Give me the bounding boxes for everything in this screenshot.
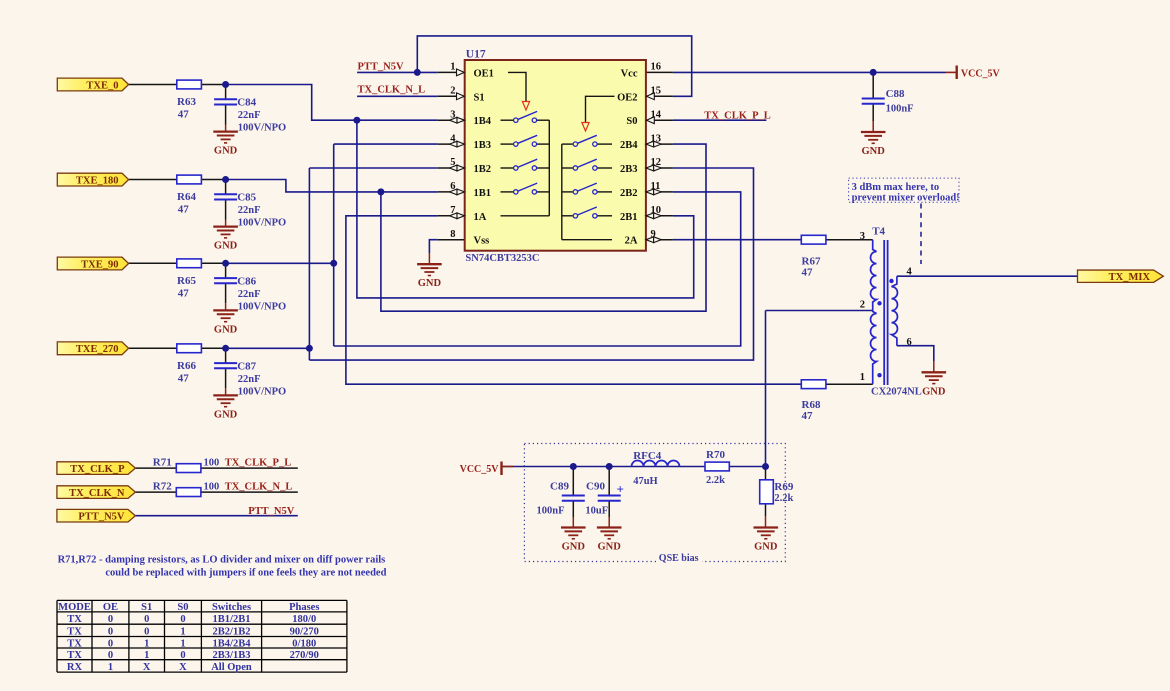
svg-text:C90: C90 (586, 481, 605, 493)
svg-text:GND: GND (418, 278, 442, 289)
svg-text:GND: GND (862, 146, 886, 157)
svg-text:1A: 1A (474, 212, 487, 223)
svg-text:PTT_N5V: PTT_N5V (78, 512, 125, 523)
svg-text:GND: GND (754, 542, 778, 553)
svg-text:R64: R64 (177, 191, 196, 203)
svg-text:2B1: 2B1 (620, 212, 638, 223)
svg-text:22nF: 22nF (238, 289, 261, 300)
svg-text:2B4: 2B4 (620, 140, 638, 151)
svg-text:16: 16 (651, 62, 662, 73)
svg-text:90/270: 90/270 (290, 626, 319, 637)
svg-text:1: 1 (450, 62, 455, 73)
svg-text:1B1: 1B1 (474, 188, 492, 199)
svg-text:TX_CLK_N_L: TX_CLK_N_L (358, 85, 426, 96)
svg-text:0: 0 (108, 638, 113, 649)
svg-text:VCC_5V: VCC_5V (460, 464, 500, 475)
svg-text:RX: RX (67, 662, 83, 673)
svg-text:TXE_90: TXE_90 (81, 259, 118, 270)
svg-text:VCC_5V: VCC_5V (961, 69, 1001, 80)
svg-text:0/180: 0/180 (292, 638, 316, 649)
svg-text:1B1/2B1: 1B1/2B1 (213, 614, 251, 625)
svg-text:100V/NPO: 100V/NPO (238, 301, 286, 312)
svg-text:C84: C84 (237, 97, 256, 109)
svg-text:22nF: 22nF (238, 110, 261, 121)
svg-text:GND: GND (214, 409, 238, 420)
svg-text:180/0: 180/0 (292, 614, 316, 625)
svg-text:47: 47 (178, 372, 190, 384)
svg-text:R72: R72 (153, 481, 172, 493)
svg-text:GND: GND (214, 324, 238, 335)
svg-text:100: 100 (204, 457, 220, 468)
svg-text:8: 8 (450, 229, 455, 240)
svg-text:TX: TX (67, 650, 82, 661)
svg-text:2A: 2A (625, 236, 638, 247)
svg-text:47: 47 (178, 287, 190, 299)
svg-text:C88: C88 (886, 88, 905, 100)
svg-text:2: 2 (860, 300, 865, 311)
svg-text:10uF: 10uF (585, 505, 608, 516)
svg-text:R71,R72 - damping resistors, a: R71,R72 - damping resistors, as LO divid… (58, 555, 386, 566)
svg-text:1: 1 (180, 626, 185, 637)
svg-text:OE1: OE1 (474, 68, 494, 79)
svg-text:R70: R70 (706, 449, 725, 461)
svg-text:TX: TX (67, 626, 82, 637)
svg-text:2.2k: 2.2k (706, 475, 725, 486)
svg-text:3 dBm max here, to: 3 dBm max here, to (852, 182, 940, 193)
svg-text:TX: TX (67, 638, 82, 649)
svg-text:22nF: 22nF (238, 205, 261, 216)
svg-text:PTT_N5V: PTT_N5V (358, 61, 405, 72)
svg-text:2.2k: 2.2k (774, 493, 793, 504)
svg-text:S1: S1 (474, 92, 485, 103)
svg-text:47: 47 (178, 109, 190, 121)
svg-text:3: 3 (860, 231, 865, 242)
svg-text:1: 1 (180, 638, 185, 649)
svg-text:MODE: MODE (58, 602, 91, 613)
svg-text:TXE_180: TXE_180 (76, 175, 119, 186)
svg-text:0: 0 (180, 650, 185, 661)
svg-text:2B3: 2B3 (620, 164, 638, 175)
svg-text:GND: GND (214, 146, 238, 157)
svg-text:TXE_0: TXE_0 (86, 80, 118, 91)
svg-text:TX_MIX: TX_MIX (1109, 272, 1151, 283)
svg-text:22nF: 22nF (238, 374, 261, 385)
svg-text:S0: S0 (626, 116, 637, 127)
svg-text:could be replaced with jumpers: could be replaced with jumpers if one fe… (105, 568, 386, 579)
svg-text:1: 1 (108, 662, 113, 673)
svg-text:GND: GND (598, 542, 622, 553)
svg-text:Vcc: Vcc (621, 68, 638, 79)
svg-text:OE2: OE2 (617, 92, 637, 103)
svg-text:TX_CLK_P_L: TX_CLK_P_L (704, 111, 771, 122)
svg-text:Vss: Vss (474, 236, 490, 247)
svg-text:OE: OE (103, 602, 118, 613)
svg-text:TX: TX (67, 614, 82, 625)
svg-text:0: 0 (108, 614, 113, 625)
svg-text:TX_CLK_P: TX_CLK_P (70, 464, 125, 475)
svg-text:X: X (143, 662, 151, 673)
svg-text:47: 47 (802, 267, 814, 279)
svg-text:R71: R71 (153, 456, 172, 468)
svg-text:4: 4 (907, 267, 913, 278)
svg-text:TX_CLK_N_L: TX_CLK_N_L (225, 482, 293, 493)
svg-text:270/90: 270/90 (290, 650, 319, 661)
svg-text:1: 1 (860, 372, 865, 383)
svg-text:100nF: 100nF (886, 104, 914, 115)
svg-text:0: 0 (108, 626, 113, 637)
svg-text:C87: C87 (237, 360, 256, 372)
svg-text:TX_CLK_N: TX_CLK_N (69, 488, 125, 499)
svg-text:GND: GND (562, 542, 586, 553)
svg-text:U17: U17 (466, 49, 486, 61)
svg-text:T4: T4 (872, 226, 885, 238)
svg-text:0: 0 (180, 614, 185, 625)
svg-text:+: + (617, 482, 624, 497)
svg-text:1: 1 (144, 638, 149, 649)
svg-text:100: 100 (204, 482, 220, 493)
svg-text:C85: C85 (237, 192, 256, 204)
svg-text:RFC4: RFC4 (633, 450, 662, 462)
svg-text:1: 1 (144, 650, 149, 661)
svg-text:1B2: 1B2 (474, 164, 492, 175)
svg-text:2B2: 2B2 (620, 188, 638, 199)
svg-text:1B4: 1B4 (474, 116, 492, 127)
svg-text:R63: R63 (177, 96, 196, 108)
svg-text:All Open: All Open (211, 662, 252, 673)
svg-text:100V/NPO: 100V/NPO (238, 386, 286, 397)
svg-text:2B2/1B2: 2B2/1B2 (213, 626, 251, 637)
svg-text:C86: C86 (237, 275, 256, 287)
svg-text:QSE bias: QSE bias (659, 553, 699, 564)
svg-text:GND: GND (922, 386, 946, 397)
svg-text:R65: R65 (177, 275, 196, 287)
svg-text:2: 2 (450, 86, 455, 97)
svg-text:47: 47 (802, 410, 814, 422)
svg-text:6: 6 (907, 337, 912, 348)
svg-text:X: X (179, 662, 187, 673)
svg-text:GND: GND (214, 241, 238, 252)
svg-text:R66: R66 (177, 360, 196, 372)
svg-text:Switches: Switches (212, 602, 251, 613)
svg-text:CX2074NL: CX2074NL (871, 387, 922, 398)
svg-text:TXE_270: TXE_270 (76, 344, 119, 355)
svg-text:S1: S1 (141, 602, 152, 613)
svg-text:1B3: 1B3 (474, 140, 492, 151)
svg-text:100V/NPO: 100V/NPO (238, 123, 286, 134)
svg-text:SN74CBT3253C: SN74CBT3253C (465, 253, 539, 264)
svg-text:2B3/1B3: 2B3/1B3 (213, 650, 251, 661)
svg-text:0: 0 (108, 650, 113, 661)
svg-text:S0: S0 (177, 602, 188, 613)
svg-text:R69: R69 (774, 481, 793, 493)
svg-text:47: 47 (178, 204, 190, 216)
svg-text:0: 0 (144, 626, 149, 637)
svg-text:TX_CLK_P_L: TX_CLK_P_L (225, 457, 292, 468)
svg-text:0: 0 (144, 614, 149, 625)
svg-text:1B4/2B4: 1B4/2B4 (213, 638, 252, 649)
svg-text:47uH: 47uH (633, 476, 658, 487)
svg-text:prevent mixer overload!: prevent mixer overload! (852, 193, 960, 204)
svg-text:100nF: 100nF (537, 505, 565, 516)
svg-text:C89: C89 (550, 481, 569, 493)
svg-text:PTT_N5V: PTT_N5V (248, 506, 295, 517)
svg-text:100V/NPO: 100V/NPO (238, 218, 286, 229)
svg-text:Phases: Phases (289, 602, 319, 613)
